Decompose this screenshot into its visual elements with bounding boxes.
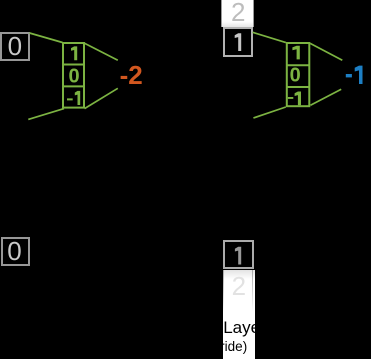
decorative fading side borders of strip bbox=[223, 270, 224, 312]
kernel left weight 1 bbox=[71, 46, 77, 60]
kernel grid right bbox=[287, 43, 310, 106]
wire left kernel bottom to output bbox=[85, 88, 118, 108]
svg-text:-2: -2 bbox=[120, 60, 143, 90]
kernel right weight 1 bbox=[292, 46, 299, 60]
svg-text:0: 0 bbox=[68, 65, 79, 87]
node input box 0 (bottom-left) bbox=[1, 237, 30, 267]
svg-text:0: 0 bbox=[290, 65, 301, 87]
wire left kernel to lower input bbox=[28, 109, 64, 120]
node picker cell 2 (top-right, faded white background cell) bbox=[221, 0, 253, 27]
kernel left weight -1 bbox=[67, 91, 80, 105]
wire right input to kernel bbox=[253, 32, 286, 42]
wire right kernel to lower input bbox=[253, 107, 285, 118]
node input box 1 (bottom-right, selected) bbox=[223, 240, 254, 269]
wire right kernel bottom to output bbox=[311, 89, 342, 105]
node input box 1 (top-right, selected) bbox=[223, 27, 253, 57]
label Layer (clipped caption line 1) bbox=[223, 318, 266, 338]
wire left kernel top to output bbox=[85, 43, 118, 60]
kernel right weight -1 bbox=[288, 92, 301, 106]
node output -1 (blue) bbox=[346, 66, 363, 84]
label (stride) (clipped caption line 2) bbox=[205, 339, 247, 354]
svg-text:2: 2 bbox=[231, 0, 245, 27]
node input box 0 (top-left) bbox=[0, 32, 30, 61]
svg-text:2: 2 bbox=[232, 271, 246, 301]
wire left input to kernel bbox=[30, 33, 63, 43]
label digit 1 in bottom-right selected box bbox=[235, 247, 241, 265]
svg-text:0: 0 bbox=[8, 31, 22, 61]
kernel grid left bbox=[63, 43, 84, 108]
label digit 1 in top-right selected box bbox=[235, 33, 242, 51]
wire right kernel top to output bbox=[310, 43, 342, 60]
svg-text:0: 0 bbox=[7, 236, 21, 266]
node picker strip (bottom-right) white background bbox=[223, 270, 256, 359]
